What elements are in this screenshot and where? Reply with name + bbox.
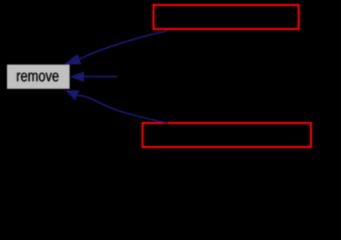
node top (red outlined caller) xyxy=(154,5,299,29)
arrowhead middle->remove xyxy=(70,71,84,82)
arrowhead top->remove xyxy=(64,54,81,65)
edge top->remove xyxy=(80,31,168,59)
node remove (current node, grey) xyxy=(7,65,70,89)
edge middle->remove xyxy=(84,76,118,78)
arrowhead bottom->remove xyxy=(65,90,79,100)
node bottom (red outlined caller) xyxy=(143,123,311,147)
edge bottom->remove xyxy=(77,95,168,123)
